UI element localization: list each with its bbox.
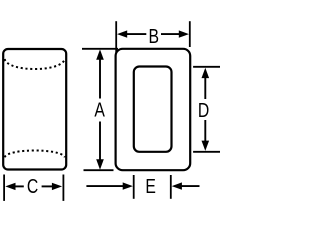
svg-text:D: D xyxy=(198,99,209,121)
dimension C: left arrow xyxy=(5,183,24,190)
svg-text:A: A xyxy=(94,99,105,121)
dimension E: right arrow (pointing left) xyxy=(172,182,200,189)
dimension C: right extension line xyxy=(62,175,64,201)
dimension A: bottom extension line xyxy=(84,169,114,171)
dimension B: left arrow xyxy=(117,30,146,37)
right view: inner opening outline xyxy=(134,67,172,152)
svg-text:E: E xyxy=(145,175,156,197)
dimension C: left extension line xyxy=(3,175,5,201)
svg-text:C: C xyxy=(27,175,38,197)
dimension B: right arrow xyxy=(161,30,189,37)
dimension D: top extension line xyxy=(193,66,220,68)
left view: top hidden line (dotted arc) xyxy=(5,59,65,69)
dimension A: bottom arrow xyxy=(96,122,104,170)
right view: outer outline xyxy=(116,49,191,170)
dimension A: top extension line xyxy=(82,48,118,50)
dimension D: top arrow xyxy=(202,68,210,99)
dimension E: left extension line xyxy=(133,175,135,199)
dimension D: bottom arrow xyxy=(202,120,210,151)
left view: bottom hidden line (dotted arc) xyxy=(5,150,65,157)
svg-text:B: B xyxy=(148,25,159,47)
dimension B: right extension line xyxy=(189,21,191,47)
dimension E: left arrow (pointing right) xyxy=(86,182,132,189)
left view: side outline xyxy=(3,49,66,170)
dimension C: right arrow xyxy=(42,183,63,190)
dimension D: bottom extension line xyxy=(193,151,220,153)
dimension E: right extension line xyxy=(170,175,172,199)
dimension B: left extension line xyxy=(115,21,117,52)
dimension A: top arrow xyxy=(96,49,104,98)
